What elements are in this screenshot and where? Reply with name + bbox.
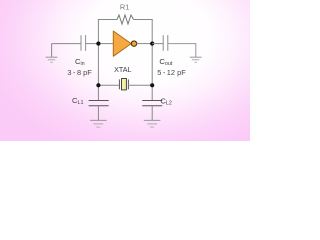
wire: ground to C_in (52, 43, 81, 45)
wire: C_in to input node (86, 43, 99, 45)
capacitor C_in, 3-8 pF (67, 35, 92, 77)
capacitor C_L1 (72, 96, 109, 106)
op-amp U1 (inverter triangle with bubble) (113, 31, 136, 56)
wire: left rail vertical (97, 20, 99, 101)
wire: left rail to crystal (98, 84, 119, 86)
crystal XTAL (114, 65, 131, 90)
svg-text:R1: R1 (120, 2, 129, 11)
node: inverter input junction (96, 42, 100, 46)
wire: C_out to right ground (168, 44, 196, 58)
wire: crystal to right rail (128, 84, 152, 86)
wire: input node to inverter (98, 43, 113, 45)
ground (below C_L1) (90, 120, 107, 127)
capacitor C_out, 5-12 pF (157, 35, 186, 77)
capacitor C_L2 (142, 96, 172, 106)
svg-text:5 - 12 pF: 5 - 12 pF (157, 68, 186, 77)
wire: C_L2 to ground (151, 106, 153, 121)
wire: right rail vertical (151, 20, 153, 101)
wire: bubble to output node (137, 43, 153, 45)
node: inverter output junction (150, 42, 154, 46)
wire: feedback top-left horizontal (98, 19, 117, 21)
svg-text:3 - 8 pF: 3 - 8 pF (67, 68, 92, 77)
resistor R1 (117, 2, 134, 24)
ground (below C_L2) (144, 120, 161, 127)
ground (left of C_in) (46, 44, 58, 63)
node: crystal right junction (150, 83, 154, 87)
node: crystal left junction (96, 83, 100, 87)
svg-text:XTAL: XTAL (114, 65, 131, 74)
ground (right of C_out) (190, 57, 202, 62)
wire: C_L1 to ground (97, 106, 99, 121)
wire: feedback top-right horizontal (134, 19, 153, 21)
wire: output node to C_out (152, 43, 163, 45)
